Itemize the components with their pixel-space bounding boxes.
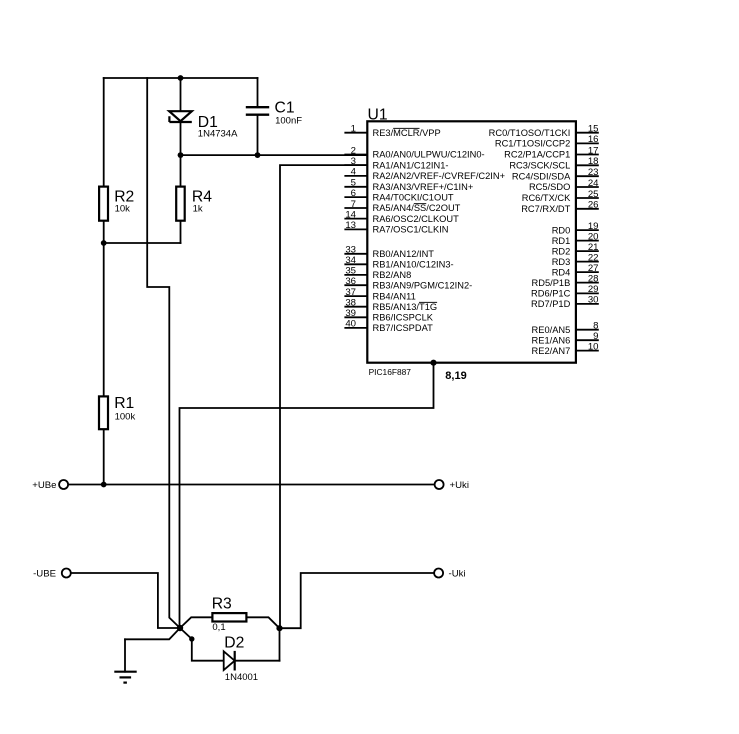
- svg-text:40: 40: [345, 319, 356, 330]
- svg-text:RA6/OSC2/CLKOUT: RA6/OSC2/CLKOUT: [373, 214, 460, 224]
- svg-text:4: 4: [351, 167, 357, 178]
- svg-text:RB7/ICSPDAT: RB7/ICSPDAT: [373, 323, 434, 333]
- svg-text:39: 39: [345, 308, 356, 319]
- svg-text:RE2/AN7: RE2/AN7: [532, 346, 571, 356]
- svg-text:1N4001: 1N4001: [225, 672, 258, 683]
- svg-text:27: 27: [588, 263, 599, 274]
- svg-text:R3: R3: [212, 595, 232, 612]
- svg-text:15: 15: [588, 124, 599, 135]
- svg-text:7: 7: [351, 199, 356, 210]
- svg-text:RA2/AN2/VREF-/CVREF/C2IN+: RA2/AN2/VREF-/CVREF/C2IN+: [373, 171, 506, 181]
- svg-text:16: 16: [588, 134, 599, 145]
- svg-text:33: 33: [345, 245, 356, 256]
- svg-text:RC2/P1A/CCP1: RC2/P1A/CCP1: [504, 150, 570, 160]
- svg-text:C1: C1: [275, 99, 295, 116]
- svg-text:RC6/TX/CK: RC6/TX/CK: [522, 193, 571, 203]
- svg-text:RB1/AN10/C12IN3-: RB1/AN10/C12IN3-: [373, 260, 454, 270]
- svg-text:RA0/AN0/ULPWU/C12IN0-: RA0/AN0/ULPWU/C12IN0-: [373, 150, 485, 160]
- svg-text:+Uki: +Uki: [450, 480, 469, 491]
- svg-text:38: 38: [345, 298, 356, 309]
- svg-text:-Uki: -Uki: [449, 569, 466, 580]
- svg-text:RD0: RD0: [552, 225, 571, 235]
- svg-text:RC7/RX/DT: RC7/RX/DT: [521, 204, 570, 214]
- svg-text:RC5/SDO: RC5/SDO: [529, 182, 570, 192]
- svg-text:19: 19: [588, 221, 599, 232]
- svg-text:22: 22: [588, 252, 599, 263]
- svg-text:RA5/AN4/SS/C2OUT: RA5/AN4/SS/C2OUT: [373, 203, 461, 213]
- svg-text:2: 2: [351, 145, 356, 156]
- svg-text:D2: D2: [224, 634, 244, 651]
- svg-text:30: 30: [588, 295, 599, 306]
- svg-text:1: 1: [351, 124, 356, 135]
- svg-text:100nF: 100nF: [275, 115, 302, 126]
- svg-text:37: 37: [345, 287, 356, 298]
- svg-text:3: 3: [351, 156, 356, 167]
- svg-text:0,1: 0,1: [212, 622, 225, 633]
- svg-text:25: 25: [588, 189, 599, 200]
- svg-text:8: 8: [593, 321, 598, 332]
- svg-text:+UBe: +UBe: [32, 480, 56, 491]
- svg-text:RC0/T1OSO/T1CKI: RC0/T1OSO/T1CKI: [489, 128, 571, 138]
- svg-text:RD4: RD4: [552, 267, 571, 277]
- svg-text:RE1/AN6: RE1/AN6: [532, 335, 571, 345]
- svg-text:R1: R1: [114, 395, 134, 412]
- svg-text:29: 29: [588, 284, 599, 295]
- svg-text:RC4/SDI/SDA: RC4/SDI/SDA: [512, 171, 571, 181]
- svg-text:23: 23: [588, 167, 599, 178]
- svg-text:14: 14: [345, 209, 356, 220]
- svg-text:10k: 10k: [115, 203, 131, 214]
- svg-text:9: 9: [593, 331, 598, 342]
- svg-text:RE0/AN5: RE0/AN5: [532, 325, 571, 335]
- svg-text:13: 13: [345, 220, 356, 231]
- svg-text:100k: 100k: [115, 411, 136, 422]
- svg-text:RE3/MCLR/VPP: RE3/MCLR/VPP: [373, 128, 441, 138]
- svg-text:RC3/SCK/SCL: RC3/SCK/SCL: [509, 161, 570, 171]
- svg-text:6: 6: [351, 188, 356, 199]
- svg-text:RB2/AN8: RB2/AN8: [373, 270, 412, 280]
- svg-text:20: 20: [588, 231, 599, 242]
- svg-text:PIC16F887: PIC16F887: [369, 367, 412, 377]
- svg-text:RB5/AN13/T1G: RB5/AN13/T1G: [373, 302, 438, 312]
- svg-text:34: 34: [345, 255, 356, 266]
- svg-text:1k: 1k: [193, 203, 203, 214]
- svg-text:17: 17: [588, 145, 599, 156]
- svg-text:RB4/AN11: RB4/AN11: [373, 291, 416, 301]
- svg-text:36: 36: [345, 276, 356, 287]
- svg-text:26: 26: [588, 200, 599, 211]
- svg-text:-UBE: -UBE: [33, 569, 56, 580]
- svg-text:10: 10: [588, 341, 599, 352]
- svg-text:RD1: RD1: [552, 236, 571, 246]
- svg-text:RB6/ICSPCLK: RB6/ICSPCLK: [373, 313, 434, 323]
- svg-text:RA4/T0CKI/C1OUT: RA4/T0CKI/C1OUT: [373, 192, 454, 202]
- svg-text:RD7/P1D: RD7/P1D: [531, 299, 571, 309]
- svg-text:18: 18: [588, 156, 599, 167]
- svg-text:RD5/P1B: RD5/P1B: [532, 278, 571, 288]
- svg-text:RD2: RD2: [552, 246, 571, 256]
- svg-text:24: 24: [588, 178, 599, 189]
- svg-text:RD3: RD3: [552, 257, 571, 267]
- svg-text:RA3/AN3/VREF+/C1IN+: RA3/AN3/VREF+/C1IN+: [373, 182, 474, 192]
- svg-text:U1: U1: [368, 107, 388, 124]
- svg-text:28: 28: [588, 273, 599, 284]
- svg-text:8,19: 8,19: [445, 370, 466, 382]
- svg-text:RB3/AN9/PGM/C12IN2-: RB3/AN9/PGM/C12IN2-: [373, 280, 473, 290]
- svg-text:1N4734A: 1N4734A: [198, 129, 238, 140]
- svg-text:RA7/OSC1/CLKIN: RA7/OSC1/CLKIN: [373, 225, 449, 235]
- svg-text:RA1/AN1/C12IN1-: RA1/AN1/C12IN1-: [373, 160, 449, 170]
- svg-text:RD6/P1C: RD6/P1C: [531, 289, 571, 299]
- svg-text:RB0/AN12/INT: RB0/AN12/INT: [373, 249, 435, 259]
- svg-text:21: 21: [588, 242, 599, 253]
- svg-text:RC1/T1OSI/CCP2: RC1/T1OSI/CCP2: [495, 139, 570, 149]
